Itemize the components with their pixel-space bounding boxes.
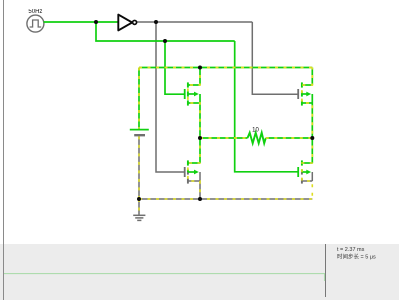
left leg: mid node to M3 drain xyxy=(199,138,201,163)
left leg: M1 source to mid node xyxy=(199,103,201,138)
resistor R1 10 xyxy=(248,133,266,144)
battery bottom wire xyxy=(138,136,140,199)
mosfet M2 xyxy=(298,82,312,105)
bottom rail wire xyxy=(139,198,312,200)
right leg: rail corner to M2 drain xyxy=(311,68,313,86)
wire inverted signal to M2 gate xyxy=(252,22,297,94)
battery V2 xyxy=(130,129,149,131)
svg-text:50Hz: 50Hz xyxy=(28,9,42,15)
svg-text:时间步长 = 5 μs: 时间步长 = 5 μs xyxy=(337,252,376,260)
right leg: M2 source to right mid node xyxy=(311,103,313,138)
mosfet M4 xyxy=(298,160,312,183)
wire inverter output xyxy=(137,21,252,23)
junction node ground xyxy=(137,197,141,201)
current dashes right leg bottom xyxy=(302,138,312,199)
mid wire right of resistor xyxy=(266,137,313,139)
junction node right mid xyxy=(310,136,314,140)
window left edge xyxy=(3,0,5,300)
right leg: right mid node to M4 drain xyxy=(311,138,313,163)
svg-text:t = 2.37 ms: t = 2.37 ms xyxy=(337,247,365,253)
left leg: rail to M1 drain xyxy=(199,68,201,86)
current dashes left leg bottom xyxy=(188,138,200,199)
ground xyxy=(133,199,145,220)
mosfet M1 xyxy=(185,82,200,105)
wire branch down from node at x=96 xyxy=(96,22,235,41)
bottom panel background xyxy=(0,244,399,300)
left leg: M3 source to bottom rail xyxy=(199,181,201,199)
mid wire left of resistor xyxy=(200,137,248,139)
junction node left mid xyxy=(198,136,202,140)
junction node bottom rail xyxy=(198,197,202,201)
wire gate feed M1: down from node x=165 xyxy=(165,41,184,94)
wire source to inverter input xyxy=(44,21,118,23)
top rail wire xyxy=(139,67,312,69)
wire inverted signal to M3 gate xyxy=(156,22,184,172)
scope/status divider xyxy=(325,244,327,297)
svg-text:10: 10 xyxy=(252,127,259,133)
junction node at inverter output xyxy=(154,20,158,24)
battery top wire xyxy=(138,68,140,129)
junction node on top rail xyxy=(198,66,202,70)
wire gate feed M4: down from x=234.7 xyxy=(235,41,298,172)
AC source V1 xyxy=(27,15,44,32)
current dashes left leg top xyxy=(188,68,200,139)
junction node on y41 wire xyxy=(163,39,167,43)
junction node at source wire xyxy=(94,20,98,24)
current dashes right leg top xyxy=(302,68,312,139)
inverter U1 xyxy=(118,15,136,31)
scope trace xyxy=(4,274,325,281)
mosfet M3 xyxy=(185,160,200,183)
